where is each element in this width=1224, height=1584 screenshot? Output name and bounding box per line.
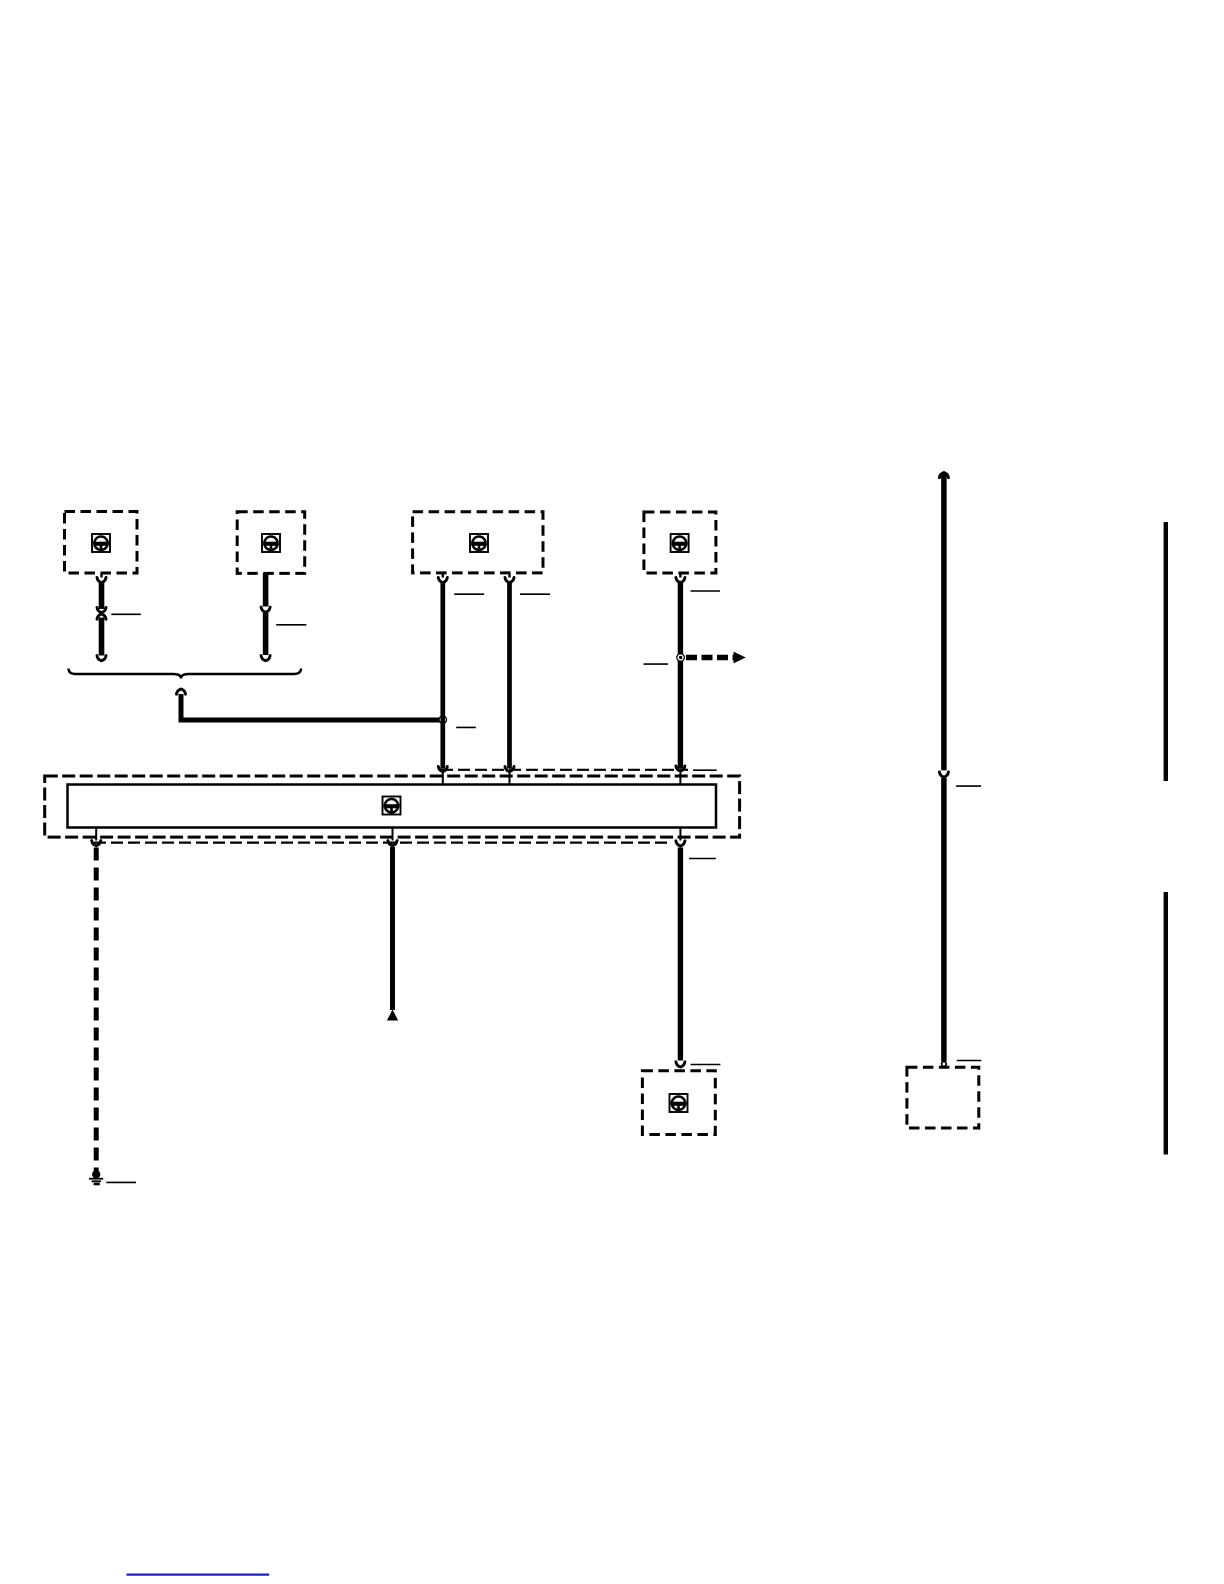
label line at node B: [644, 663, 669, 665]
component box K2 (steering wheel icon): [237, 512, 305, 574]
connector arrow at top of wire W7: [939, 473, 948, 478]
wire W7 lower segment: [941, 778, 947, 1062]
wire W2 upper segment from box K2: [263, 573, 269, 606]
junction node B on wire W4: [676, 653, 685, 662]
label line of W4: [691, 590, 721, 592]
connector arrow of W5 below bus box: [388, 841, 397, 846]
connector arrow at W1 lower end: [97, 656, 106, 661]
connector arrow at W2 lower end: [261, 656, 270, 661]
wire W1 upper segment: [99, 582, 105, 609]
wire W7 upper segment: [941, 474, 947, 770]
W4 pin lead into bus bar: [679, 771, 681, 785]
label line of W3a: [454, 593, 484, 595]
label line of W6 below bus: [689, 858, 716, 860]
wire W1 pin stub at box K1: [100, 573, 102, 578]
wire W6 pin lead out of bus bar: [679, 828, 681, 841]
wire W4 pin stub at box K4: [679, 573, 681, 578]
connector arrow of W6 below bus box: [676, 841, 685, 846]
connector arrow of W6 at box K6: [676, 1062, 685, 1067]
bus bar U1 (solid box with steering wheel icon): [68, 785, 717, 828]
connector arrow at K4 pin: [676, 577, 685, 582]
wire W3b pin stub at box K3: [508, 574, 510, 578]
bundle wire horizontal segment to node A: [179, 718, 444, 723]
dashed ground wire G1: [94, 848, 99, 1172]
inline connector arrow on W7: [939, 772, 948, 777]
bundle brace under W1 and W2: [69, 669, 302, 679]
terminal ring at W7 end: [942, 1062, 947, 1067]
W3a pin lead into bus bar: [442, 772, 444, 785]
W3b pin lead into bus bar: [509, 772, 511, 785]
wire W4 segment down to bus box: [678, 582, 683, 769]
wire G1 pin lead out of bus bar: [95, 828, 97, 841]
inline connector arrow on W2: [261, 607, 270, 612]
connector arrow below brace: [177, 689, 186, 694]
label line of W2 connector: [276, 624, 306, 626]
ground symbol: [89, 1170, 103, 1184]
dashed branch arrow to other page: [686, 652, 746, 664]
current track bar (upper right): [1164, 522, 1168, 781]
label line at ground: [106, 1181, 136, 1183]
wire W5 pin lead out of bus bar: [392, 828, 394, 841]
label line of W3b: [520, 593, 550, 595]
label line of W7 connector: [956, 785, 981, 787]
connector arrow of W4 at bus box: [676, 766, 685, 771]
connector arrow at K3 left pin: [438, 577, 447, 582]
label line of W7 at box K7: [957, 1060, 982, 1062]
junction node A on wire W3a: [438, 715, 447, 724]
label line at node A: [456, 726, 476, 728]
connector arrow of W3b at bus box: [505, 766, 514, 771]
inline connector pair on W1: [97, 607, 106, 619]
component box K4 (steering wheel icon): [644, 512, 716, 573]
label line of W4 at bus entry: [693, 769, 717, 771]
dashed harness outline around bus bar: [45, 776, 740, 837]
wire W1 lower segment: [99, 618, 105, 656]
wire W3a segment down to bus box: [440, 582, 445, 769]
label line of W6 at box K6: [691, 1064, 721, 1066]
wire W3b segment down to bus box: [507, 582, 512, 769]
connector arrow at K1 pin: [97, 577, 106, 582]
wire W5 segment: [390, 847, 395, 1010]
bundle wire vertical segment: [179, 694, 184, 723]
current track bar (lower right): [1164, 892, 1168, 1155]
hyperlink underline (bottom left): [127, 1573, 270, 1575]
label line of inline connector: [111, 613, 141, 615]
dashed connector strip above bus bar: [441, 769, 688, 771]
wire W2 lower segment: [263, 613, 269, 655]
connector arrow of G1 below bus box: [92, 841, 101, 846]
connector arrow at K3 right pin: [505, 577, 514, 582]
component box K6 (steering wheel icon): [642, 1071, 715, 1135]
dashed connector strip below bus bar: [94, 841, 670, 843]
component box K1 (top-left, steering wheel icon): [65, 512, 138, 574]
splice triangle at W5 end: [387, 1010, 398, 1021]
wire W3a pin stub at box K3: [442, 574, 444, 578]
component box K7 (empty): [907, 1067, 979, 1128]
connector arrow of W3a at bus box: [438, 766, 447, 771]
wire W6 segment down to box K6: [678, 848, 683, 1061]
component box K3 (wide, steering wheel icon): [413, 512, 543, 573]
